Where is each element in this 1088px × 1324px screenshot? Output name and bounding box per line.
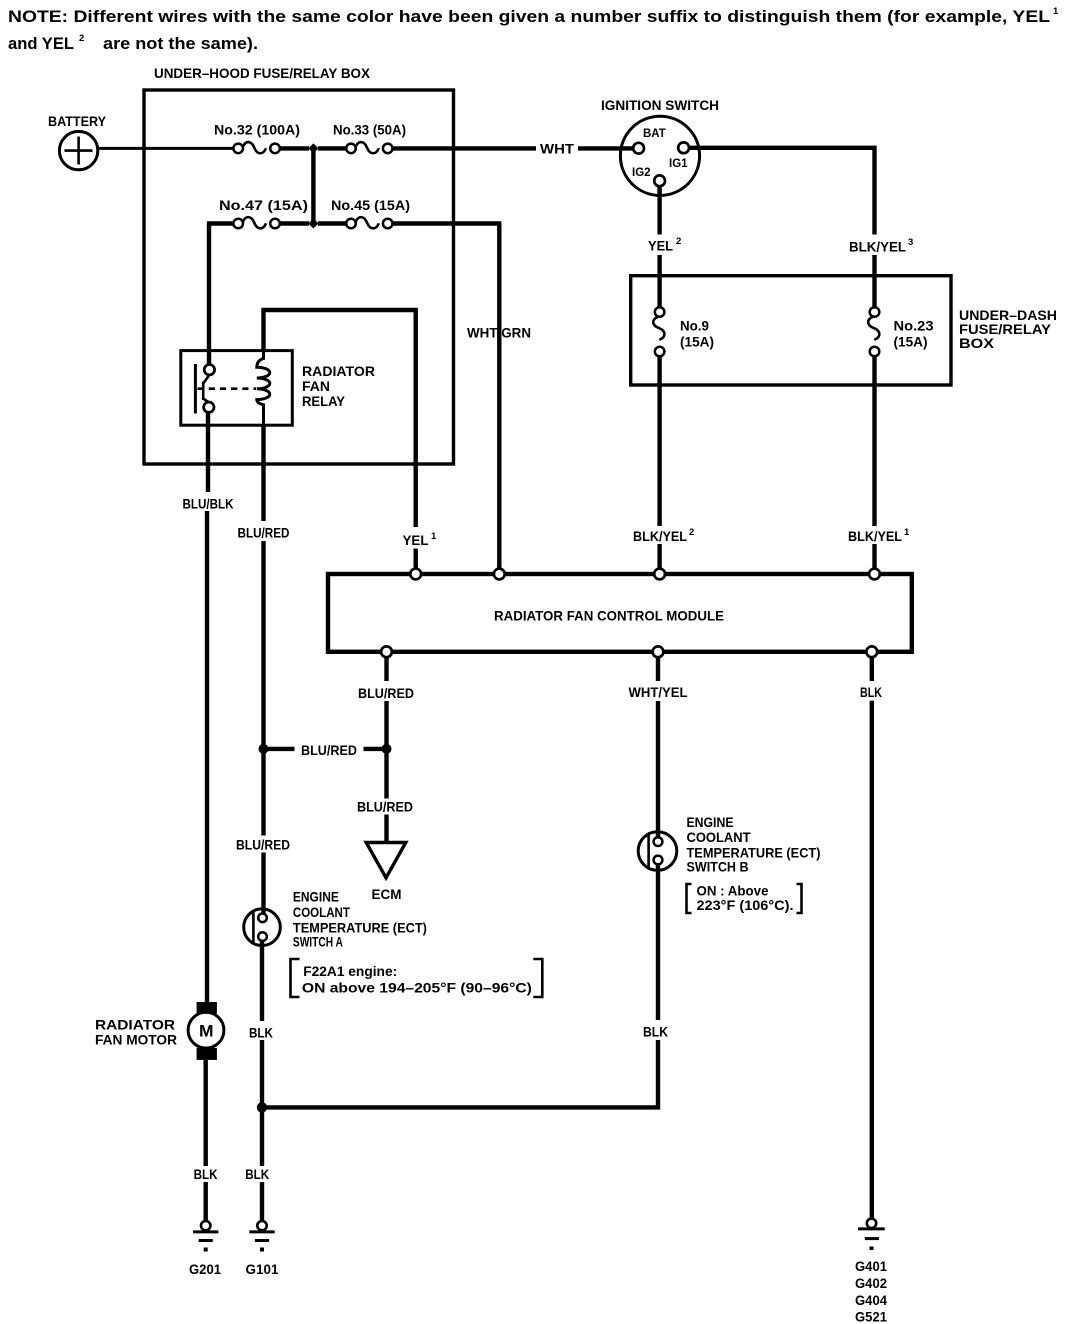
- svg-text:G404: G404: [855, 1292, 887, 1308]
- svg-text:ENGINE: ENGINE: [293, 889, 339, 905]
- svg-text:YEL: YEL: [648, 238, 673, 254]
- svg-text:BLU/RED: BLU/RED: [236, 837, 290, 853]
- svg-text:IGNITION SWITCH: IGNITION SWITCH: [601, 97, 719, 113]
- svg-text:3: 3: [908, 237, 913, 248]
- svg-text:BLK/YEL: BLK/YEL: [633, 528, 687, 544]
- under-hood fuse/relay box: [144, 90, 454, 464]
- svg-text:BATTERY: BATTERY: [48, 113, 107, 129]
- module terminal WHT/YEL: [653, 646, 664, 657]
- svg-text:No.32 (100A): No.32 (100A): [214, 122, 300, 138]
- svg-text:2: 2: [689, 527, 694, 538]
- svg-text:BLU/BLK: BLU/BLK: [183, 496, 234, 512]
- svg-text:RADIATOR FAN CONTROL MODULE: RADIATOR FAN CONTROL MODULE: [494, 608, 724, 624]
- wire BLU/RED relay coil down: [261, 425, 265, 521]
- svg-text:BLK/YEL: BLK/YEL: [848, 528, 902, 544]
- module terminal BLK: [866, 646, 877, 657]
- radiator fan motor M1: [197, 1002, 217, 1014]
- svg-text:No.47 (15A): No.47 (15A): [219, 197, 308, 213]
- ECT switch B: [638, 832, 677, 871]
- svg-text:COOLANT: COOLANT: [687, 829, 751, 845]
- svg-text:RADIATOR: RADIATOR: [302, 363, 375, 379]
- svg-text:1: 1: [1053, 6, 1059, 17]
- svg-text:(15A): (15A): [894, 334, 928, 350]
- svg-text:No.23: No.23: [894, 318, 934, 334]
- wire YEL2 from IG2: [657, 186, 661, 234]
- svg-text:IG2: IG2: [632, 167, 651, 179]
- svg-text:BLK: BLK: [245, 1166, 269, 1182]
- wire BLU/RED module down: [384, 657, 388, 681]
- svg-text:BLU/RED: BLU/RED: [238, 525, 290, 541]
- battery B1: [59, 131, 97, 169]
- ground G101: [257, 1221, 266, 1230]
- svg-text:1: 1: [431, 531, 437, 542]
- svg-text:WHT: WHT: [540, 141, 574, 157]
- wire BLU/RED link horizontal: [264, 747, 295, 751]
- svg-text:SWITCH A: SWITCH A: [293, 934, 343, 950]
- svg-text:BLU/RED: BLU/RED: [301, 742, 357, 758]
- wire BLK motor to ground: [203, 1060, 207, 1166]
- wire BLU/BLK relay to motor: [206, 412, 210, 492]
- svg-text:G401: G401: [855, 1258, 887, 1274]
- relay switch arm: [203, 375, 209, 384]
- wire BLU/RED to ECM: [384, 749, 388, 799]
- svg-text:BLK: BLK: [860, 684, 882, 700]
- svg-text:F22A1 engine:: F22A1 engine:: [303, 963, 397, 979]
- wire BLK/YEL2: [657, 356, 661, 526]
- svg-text:2: 2: [676, 236, 681, 247]
- ground G401: [867, 1219, 876, 1228]
- wire YEL1: [414, 308, 418, 527]
- svg-text:BOX: BOX: [959, 335, 995, 351]
- node junction BLU/RED right: [382, 744, 392, 754]
- svg-text:RADIATOR: RADIATOR: [95, 1017, 175, 1033]
- svg-text:FAN MOTOR: FAN MOTOR: [95, 1032, 177, 1048]
- svg-text:BAT: BAT: [643, 128, 666, 140]
- svg-text:IG1: IG1: [669, 158, 688, 170]
- svg-text:UNDER–HOOD FUSE/RELAY BOX: UNDER–HOOD FUSE/RELAY BOX: [154, 65, 371, 81]
- svg-text:YEL: YEL: [403, 532, 429, 548]
- node junction BLU/RED left: [259, 744, 269, 754]
- module terminal WHT/GRN: [494, 569, 505, 580]
- svg-text:G521: G521: [855, 1309, 887, 1324]
- ECT switch B condition bracket: [687, 884, 692, 913]
- module terminal BLK/YEL1: [869, 569, 880, 580]
- relay switch terminal bottom: [204, 402, 214, 412]
- svg-text:BLU/RED: BLU/RED: [358, 685, 414, 701]
- wire BLK/YEL1: [872, 356, 876, 526]
- svg-text:G201: G201: [189, 1261, 221, 1277]
- svg-text:BLK: BLK: [643, 1024, 668, 1040]
- node junction B (row2): [308, 219, 318, 229]
- svg-text:ON above 194–205°F (90–96°C): ON above 194–205°F (90–96°C): [302, 980, 532, 996]
- wire WHT/GRN: [393, 221, 502, 225]
- svg-text:WHT/YEL: WHT/YEL: [629, 684, 688, 700]
- svg-text:ECM: ECM: [372, 886, 402, 902]
- fuse No.23 (15A): [870, 307, 880, 317]
- wire BLU/RED ECT A down: [260, 941, 264, 1021]
- svg-text:RELAY: RELAY: [302, 393, 346, 409]
- svg-text:NOTE: Different wires with th: NOTE: Different wires with the same colo…: [8, 8, 1050, 26]
- ECT switch A condition bracket: [291, 959, 300, 997]
- relay coil L1: [257, 351, 270, 426]
- ground G201: [201, 1221, 210, 1230]
- svg-text:ENGINE: ENGINE: [687, 814, 734, 830]
- wire WHT/YEL ECT B down: [656, 864, 660, 1020]
- wire junction vertical row1-row2: [311, 148, 315, 223]
- module terminal YEL1: [410, 569, 421, 580]
- ECM connector: [366, 843, 406, 878]
- svg-text:223°F (106°C).: 223°F (106°C).: [697, 897, 794, 913]
- svg-text:FAN: FAN: [302, 378, 330, 394]
- wire No.32 to junction: [280, 146, 309, 150]
- svg-text:2: 2: [79, 33, 84, 44]
- wire WHT: [393, 146, 537, 150]
- module terminal BLU/RED: [381, 646, 392, 657]
- wire bottom horizontal link: [262, 1105, 660, 1109]
- svg-text:COOLANT: COOLANT: [293, 904, 350, 920]
- module terminal BLK/YEL2: [654, 569, 665, 580]
- wire fuse No.47 to relay switch: [207, 222, 211, 366]
- radiator fan control module box: [328, 574, 912, 652]
- radiator fan relay box: [181, 351, 292, 426]
- fuse No.9 (15A): [655, 307, 665, 317]
- svg-text:BLK/YEL: BLK/YEL: [849, 239, 906, 255]
- wire relay coil to YEL1 top: [261, 308, 265, 351]
- relay switch terminal top: [204, 365, 214, 375]
- svg-text:are not the same).: are not the same).: [103, 35, 258, 53]
- under-dash fuse/relay box: [631, 276, 951, 385]
- wire BLU/RED to ECT switch A: [261, 749, 265, 836]
- wire BLK/YEL3 horizontal from IG1: [689, 146, 877, 150]
- svg-text:WHT/GRN: WHT/GRN: [467, 325, 531, 341]
- svg-text:BLU/RED: BLU/RED: [357, 799, 413, 815]
- svg-text:No.9: No.9: [680, 318, 709, 334]
- svg-text:G101: G101: [246, 1261, 279, 1277]
- relay dashed link: [198, 387, 257, 390]
- wire BLK to ground G101: [260, 1107, 264, 1166]
- svg-text:SWITCH B: SWITCH B: [687, 859, 749, 875]
- svg-text:(15A): (15A): [680, 334, 714, 350]
- ECT switch A: [244, 909, 281, 946]
- svg-text:G402: G402: [855, 1275, 887, 1291]
- ignition switch SW1: [620, 116, 699, 195]
- relay switch bar: [194, 364, 197, 413]
- svg-text:1: 1: [904, 527, 910, 538]
- svg-text:BLK: BLK: [194, 1166, 218, 1182]
- svg-text:and YEL: and YEL: [8, 35, 74, 53]
- wire WHT/YEL module down: [656, 657, 660, 681]
- wire BLK/YEL3 vertical: [872, 146, 876, 235]
- svg-text:No.33 (50A): No.33 (50A): [333, 122, 406, 138]
- svg-text:No.45 (15A): No.45 (15A): [331, 197, 410, 213]
- svg-text:M: M: [199, 1023, 214, 1041]
- wire battery to fuse No.32: [98, 147, 234, 150]
- node junction A (row1): [308, 143, 318, 153]
- node junction bottom: [257, 1102, 267, 1112]
- wire BLK module right down: [870, 657, 874, 681]
- svg-text:BLK: BLK: [249, 1025, 273, 1041]
